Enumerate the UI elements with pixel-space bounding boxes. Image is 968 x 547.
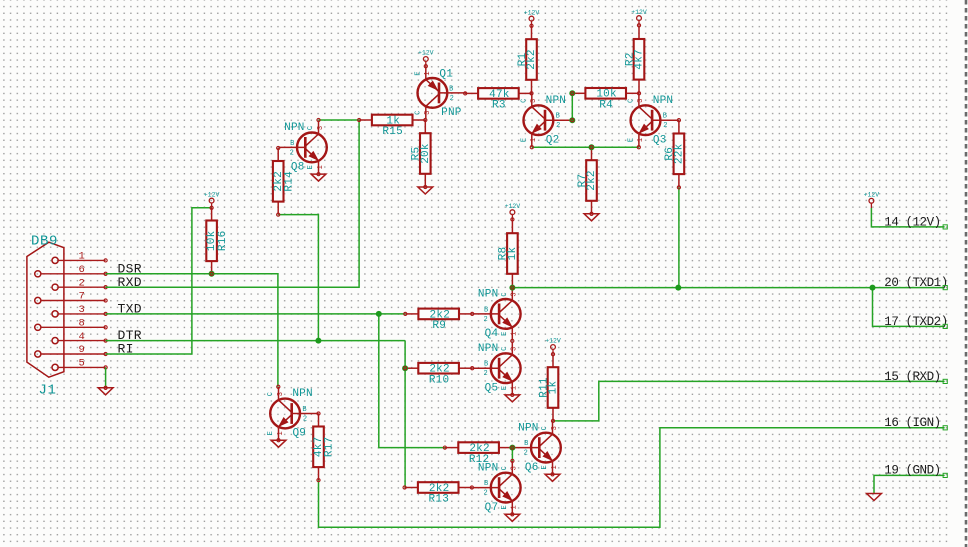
junction DSR/R16: [209, 271, 215, 277]
svg-text:3: 3: [551, 426, 559, 430]
svg-text:15 (RXD): 15 (RXD): [884, 370, 940, 384]
svg-text:1: 1: [511, 386, 519, 390]
svg-text:2: 2: [79, 277, 85, 289]
resistor R6 22k: [664, 120, 685, 187]
svg-text:3: 3: [530, 98, 538, 102]
svg-text:C: C: [628, 98, 636, 102]
svg-text:+12V: +12V: [864, 192, 880, 199]
svg-text:Q6: Q6: [525, 462, 539, 474]
+12V supply above R2: [631, 9, 647, 27]
junction TXD1 at Q4 collector: [509, 285, 515, 291]
svg-text:1: 1: [637, 138, 645, 142]
wire RI net: pin9 left up to +12V/R16 top: [106, 208, 212, 354]
resistor R4 10k: [572, 88, 639, 112]
svg-text:1: 1: [79, 251, 85, 263]
resistor R7 2k2: [577, 147, 598, 214]
junction DTR/R10: [402, 365, 408, 371]
svg-text:1: 1: [530, 138, 538, 142]
svg-text:+12V: +12V: [524, 9, 540, 16]
svg-text:Q1: Q1: [439, 68, 453, 80]
svg-text:+12V: +12V: [505, 203, 521, 210]
svg-text:4: 4: [79, 331, 85, 343]
resistor R3 47k: [465, 88, 531, 112]
svg-text:R16: R16: [217, 231, 229, 252]
junction TXD1/R6: [675, 285, 681, 291]
svg-text:B: B: [524, 440, 528, 448]
resistor R17 4k7: [313, 414, 336, 481]
wire RXD out: Q6 collector to label 15: [553, 381, 945, 421]
svg-text:2: 2: [483, 370, 487, 378]
svg-text:E: E: [501, 386, 509, 390]
ground below R5: [418, 187, 433, 194]
svg-text:B: B: [290, 140, 294, 148]
wire TXD2 branch: [873, 288, 945, 327]
svg-text:3: 3: [511, 292, 519, 296]
resistor R11 1k: [538, 354, 559, 421]
wire 12V net to label 14: [871, 208, 944, 227]
svg-text:R3: R3: [492, 100, 506, 112]
svg-text:NPN: NPN: [478, 289, 499, 301]
svg-text:NPN: NPN: [292, 388, 313, 400]
svg-text:NPN: NPN: [653, 95, 674, 107]
wire DTR branch up to R14 bottom: [278, 215, 318, 341]
svg-text:+12V: +12V: [631, 9, 647, 16]
svg-text:Q7: Q7: [485, 502, 499, 514]
pin connection points: [104, 92, 681, 489]
svg-text:3: 3: [511, 346, 519, 350]
wire GND net to label 19: [874, 475, 945, 493]
resistor R1 2k2: [517, 26, 538, 94]
svg-text:1: 1: [317, 165, 325, 169]
svg-text:NPN: NPN: [284, 122, 305, 134]
transistor Q6 NPN: [513, 421, 561, 474]
svg-text:NPN: NPN: [546, 95, 567, 107]
wire DSR net: pin6 to R16 junction to Q9 collector: [106, 274, 278, 387]
wire R4 left down to Q2 base: [571, 93, 573, 120]
svg-text:C: C: [415, 110, 423, 114]
wire R6 bottom down to TXD1: [678, 187, 680, 287]
svg-text:R15: R15: [382, 126, 403, 138]
svg-text:2: 2: [303, 416, 307, 424]
svg-text:17 (TXD2): 17 (TXD2): [884, 315, 947, 329]
svg-text:R13: R13: [429, 494, 450, 506]
svg-text:+12V: +12V: [545, 338, 561, 345]
svg-text:B: B: [484, 361, 488, 369]
svg-text:E: E: [501, 331, 509, 335]
resistor R15 1k: [359, 115, 425, 139]
svg-text:E: E: [415, 71, 423, 75]
svg-text:B: B: [484, 306, 488, 314]
ground below R7: [584, 214, 599, 221]
svg-text:R14: R14: [283, 171, 295, 192]
ground at Q7 emitter: [505, 514, 520, 521]
wire pin5 to ground: [105, 367, 107, 387]
svg-text:2: 2: [290, 149, 294, 157]
svg-text:R17: R17: [324, 437, 336, 458]
resistor R13 2k2: [405, 482, 472, 506]
+12V supply above R1: [524, 9, 540, 27]
svg-text:B: B: [663, 113, 667, 121]
svg-text:J1: J1: [39, 382, 57, 398]
svg-text:PNP: PNP: [441, 107, 462, 119]
svg-text:3: 3: [511, 466, 519, 470]
transistor Q9 NPN: [267, 387, 318, 440]
svg-text:C: C: [501, 466, 509, 470]
+12V supply above Q1: [418, 50, 434, 68]
svg-text:16 (IGN): 16 (IGN): [884, 416, 940, 430]
svg-text:E: E: [628, 138, 636, 142]
svg-text:C: C: [521, 98, 529, 102]
svg-text:2: 2: [663, 122, 667, 130]
wire TXD1 net: R8/Q4 collector to right edge: [512, 287, 944, 289]
svg-text:14 (12V): 14 (12V): [884, 216, 940, 230]
svg-text:6: 6: [79, 264, 85, 276]
ground at Q6 emitter: [545, 474, 560, 481]
svg-text:1: 1: [511, 331, 519, 335]
wire RXD net: pin2 right then up to R15/Q8 node: [106, 120, 360, 287]
transistor Q3 NPN: [628, 94, 679, 147]
svg-text:R7: R7: [577, 174, 589, 188]
svg-text:R8: R8: [498, 247, 510, 261]
transistor Q7 NPN: [472, 461, 520, 514]
resistor R16 10k: [206, 208, 229, 274]
svg-text:C: C: [501, 346, 509, 350]
junction Q6 base/R12: [509, 445, 515, 451]
svg-text:R5: R5: [411, 147, 423, 161]
+12V supply above R8: [505, 203, 521, 221]
junction TXD1/TXD2 branch: [870, 285, 876, 291]
svg-text:R9: R9: [432, 320, 446, 332]
wire DTR column down through R10 to R13 left: [404, 341, 407, 488]
svg-text:+12V: +12V: [204, 191, 220, 198]
resistor R10 2k2: [405, 363, 472, 387]
svg-text:E: E: [267, 431, 275, 435]
+12V supply above R11: [545, 338, 561, 356]
wire DTR net: pin4 to R10 column: [106, 340, 406, 342]
transistor Q5 NPN: [472, 342, 520, 395]
svg-text:3: 3: [79, 304, 85, 316]
junction DTR/R14 branch: [315, 338, 321, 344]
svg-text:5: 5: [79, 358, 85, 370]
wire Q8 collector to R15 left: [319, 119, 360, 121]
svg-text:Q4: Q4: [485, 328, 499, 340]
ground at Q5 emitter: [505, 395, 520, 402]
svg-text:3: 3: [424, 110, 432, 114]
resistor R9 2k2: [405, 309, 472, 333]
+12V supply above R16: [204, 191, 220, 209]
svg-text:2: 2: [483, 490, 487, 498]
svg-text:R1: R1: [517, 53, 529, 67]
svg-text:1: 1: [424, 71, 432, 75]
svg-text:+12V: +12V: [418, 50, 434, 57]
svg-text:E: E: [501, 505, 509, 509]
wire IGN net: R17 bottom to label 16: [319, 428, 945, 527]
junction Q2 base: [569, 117, 575, 123]
svg-text:R10: R10: [429, 374, 450, 386]
junction R4 left: [569, 90, 575, 96]
ground on GND net: [867, 494, 882, 501]
svg-text:Q2: Q2: [546, 134, 560, 146]
svg-text:9: 9: [79, 344, 85, 356]
svg-text:B: B: [449, 85, 453, 93]
svg-text:20 (TXD1): 20 (TXD1): [884, 276, 947, 290]
svg-text:R11: R11: [538, 377, 550, 398]
+12V supply for 12V net: [864, 192, 880, 209]
svg-text:B: B: [556, 113, 560, 121]
svg-text:3: 3: [317, 126, 325, 130]
svg-text:8: 8: [79, 318, 85, 330]
svg-text:NPN: NPN: [478, 462, 499, 474]
svg-text:C: C: [267, 392, 275, 396]
wire TXD branch down to R12 left: [379, 314, 445, 448]
transistor Q8 NPN: [279, 121, 327, 174]
junction TXD branch: [376, 311, 382, 317]
svg-text:2: 2: [483, 316, 487, 324]
ground below DB9 pin5: [98, 388, 113, 395]
svg-text:2: 2: [450, 95, 454, 103]
svg-text:Q9: Q9: [292, 428, 306, 440]
svg-text:NPN: NPN: [478, 343, 499, 355]
svg-text:E: E: [521, 138, 529, 142]
svg-text:1: 1: [511, 505, 519, 509]
wire Q6 base to Q7 collector: [511, 448, 513, 461]
svg-text:R6: R6: [664, 147, 676, 161]
svg-text:B: B: [484, 480, 488, 488]
svg-text:1: 1: [277, 431, 285, 435]
ground at Q9 emitter: [271, 440, 286, 447]
transistor Q4 NPN: [472, 287, 520, 340]
connector J1 DB9 body: [27, 242, 107, 377]
svg-text:E: E: [541, 465, 549, 469]
wire TXD net: pin3 to R9 left: [106, 313, 406, 315]
svg-text:2: 2: [556, 122, 560, 130]
svg-text:R4: R4: [599, 100, 613, 112]
svg-text:2: 2: [524, 450, 528, 458]
svg-text:R2: R2: [624, 52, 636, 66]
svg-text:C: C: [541, 426, 549, 430]
svg-text:3: 3: [637, 98, 645, 102]
wire Q2/Q3 emitter row with R7 tap: [532, 146, 639, 148]
transistor Q1 PNP: [415, 66, 466, 119]
ground at Q8 emitter: [311, 174, 326, 181]
transistor Q2 NPN: [521, 94, 572, 147]
resistor R12 2k2: [445, 442, 513, 466]
svg-text:Q8: Q8: [291, 162, 305, 174]
svg-text:1: 1: [551, 465, 559, 469]
resistor R5 20k: [411, 120, 432, 187]
resistor R8 1k: [498, 219, 519, 287]
svg-text:C: C: [307, 126, 315, 130]
junction emitter row/R7: [589, 144, 595, 150]
svg-text:Q5: Q5: [485, 382, 499, 394]
resistor R2 4k7: [624, 25, 645, 93]
svg-text:NPN: NPN: [518, 422, 539, 434]
svg-text:19 (GND): 19 (GND): [884, 464, 940, 478]
svg-text:7: 7: [79, 291, 85, 303]
svg-text:Q3: Q3: [653, 134, 667, 146]
svg-text:3: 3: [277, 392, 285, 396]
svg-text:DB9: DB9: [31, 233, 58, 249]
resistor R14 2k2: [273, 148, 296, 215]
svg-text:B: B: [302, 406, 306, 414]
svg-text:E: E: [307, 165, 315, 169]
svg-text:C: C: [501, 292, 509, 296]
